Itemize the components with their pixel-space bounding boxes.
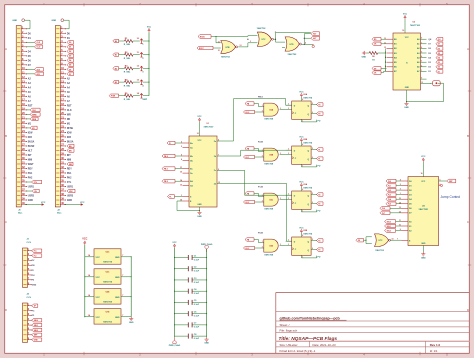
svg-text:Size: USLetter: Size: USLetter (280, 343, 298, 347)
capacitor C8 (175, 334, 207, 340)
capacitor C7 (174, 322, 207, 328)
U4 input labels (380, 179, 402, 215)
J3 labels (32, 249, 42, 286)
svg-text:FL7: FL7 (382, 213, 385, 215)
svg-text:F1: F1 (318, 159, 320, 161)
svg-text:2: 2 (262, 111, 263, 113)
svg-text:7: 7 (218, 155, 219, 157)
svg-text:github.com/TomNisbet/nqsap—pcb: github.com/TomNisbet/nqsap—pcb (280, 316, 341, 320)
svg-text:7: 7 (421, 42, 422, 44)
svg-text:U2B: U2B (303, 139, 307, 141)
right rail to GND (129, 257, 134, 324)
svg-text:B: B (467, 134, 469, 138)
svg-text:74HCT08: 74HCT08 (264, 208, 274, 211)
svg-text:2: 2 (262, 201, 263, 203)
svg-text:VCC: VCC (41, 202, 46, 204)
svg-text:FB-2: FB-2 (164, 181, 168, 183)
svg-text:74HCT74: 74HCT74 (103, 261, 113, 264)
svg-text:5: 5 (296, 40, 297, 42)
svg-text:INT: INT (28, 155, 32, 157)
svg-text:GND: GND (115, 317, 120, 319)
svg-text:D3: D3 (438, 62, 440, 64)
svg-text:USR3: USR3 (67, 196, 74, 198)
flip-flop block F2-B (244, 137, 324, 168)
svg-text:RST: RST (28, 105, 33, 107)
svg-text:VCC: VCC (197, 116, 202, 118)
svg-text:LD-2: LD-2 (245, 202, 249, 204)
svg-text:1: 1 (181, 195, 182, 197)
svg-text:VCC: VCC (96, 297, 101, 299)
J4 labels (32, 304, 42, 342)
svg-text:D5: D5 (438, 53, 440, 55)
svg-text:74HCT74: 74HCT74 (303, 141, 313, 144)
capacitor C2 (174, 266, 207, 272)
U1 input wires (175, 143, 183, 197)
wire U7B out to U7C (238, 41, 257, 47)
U5 right output labels (428, 37, 443, 73)
svg-text:74HCT74: 74HCT74 (303, 96, 313, 99)
svg-text:6: 6 (181, 159, 182, 161)
J1 net labels (28, 33, 35, 202)
svg-text:9: 9 (218, 169, 219, 171)
svg-text:74HCT02: 74HCT02 (221, 56, 231, 59)
svg-text:74HCT08: 74HCT08 (264, 254, 274, 257)
svg-text:12: 12 (218, 50, 220, 52)
svg-text:11: 11 (180, 167, 182, 169)
svg-text:74HCT02: 74HCT02 (257, 27, 267, 30)
svg-text:7: 7 (122, 275, 123, 277)
VCC power rail for resistors (147, 27, 152, 96)
svg-text:R6: R6 (372, 56, 374, 58)
svg-text:U3B: U3B (303, 230, 307, 232)
wire U1 Zb to F2-B D (224, 150, 292, 156)
wire U1 Zc to F1-B D (224, 170, 292, 195)
svg-text:3: 3 (288, 198, 289, 200)
svg-text:74HCT02: 74HCT02 (375, 249, 384, 252)
svg-text:Sheet: /: Sheet: / (280, 323, 290, 327)
svg-text:U3C: U3C (106, 272, 110, 274)
svg-text:SEL1: SEL1 (387, 226, 391, 228)
global label IR-D6 (198, 35, 211, 39)
svg-text:F3: F3 (318, 250, 320, 252)
svg-text:9: 9 (421, 78, 422, 80)
svg-text:F1: F1 (318, 149, 320, 151)
svg-text:D6: D6 (428, 48, 430, 50)
svg-text:GND: GND (28, 200, 33, 202)
svg-text:GND: GND (204, 343, 209, 345)
svg-text:SEL0: SEL0 (34, 320, 39, 322)
svg-text:5: 5 (421, 52, 422, 54)
svg-text:D2: D2 (69, 51, 71, 53)
svg-text:D5: D5 (69, 65, 71, 67)
wire U1 Zd to F0-B D (224, 184, 292, 242)
svg-text:PH1: PH1 (67, 173, 72, 175)
svg-text:U1: U1 (207, 123, 209, 125)
svg-text:U7B: U7B (225, 47, 230, 49)
svg-text:PH1: PH1 (28, 173, 33, 175)
svg-text:IR-D6: IR-D6 (200, 36, 205, 38)
global label HLT (311, 32, 320, 36)
svg-text:74HCT02: 74HCT02 (288, 53, 298, 56)
svg-text:10: 10 (392, 238, 394, 240)
svg-text:M1: M1 (32, 128, 35, 130)
svg-text:R_SEL: R_SEL (124, 85, 131, 87)
svg-text:GND: GND (421, 257, 426, 259)
svg-text:74HCT08: 74HCT08 (264, 163, 274, 166)
svg-text:VCC: VCC (421, 181, 426, 183)
svg-text:U2C: U2C (106, 252, 110, 254)
svg-text:Id: 1/1: Id: 1/1 (430, 349, 438, 353)
svg-text:B2: B2 (115, 68, 117, 70)
svg-text:1: 1 (302, 211, 303, 213)
nor-gate U7C inverter (375, 234, 402, 252)
svg-text:11: 11 (384, 42, 386, 44)
svg-text:NMI: NMI (67, 160, 72, 162)
svg-text:D1: D1 (438, 71, 440, 73)
svg-text:7: 7 (122, 255, 123, 257)
svg-text:U3A: U3A (303, 183, 307, 186)
svg-text:13: 13 (399, 207, 401, 209)
nor-gate U7B (218, 41, 238, 59)
svg-text:D0: D0 (69, 42, 71, 44)
U5 jump loop wire (407, 83, 444, 101)
wire U1 Za to FB-0 D (224, 99, 292, 141)
svg-text:2: 2 (262, 247, 263, 249)
svg-text:PWR_FLAG: PWR_FLAG (201, 243, 213, 246)
connector J1 (12, 19, 45, 215)
svg-text:R_SEL: R_SEL (124, 58, 131, 60)
svg-text:D2: D2 (438, 67, 440, 69)
svg-text:FL3: FL3 (388, 195, 391, 197)
svg-text:16: 16 (197, 133, 199, 135)
svg-text:FL2: FL2 (388, 190, 391, 192)
nor-gate U7D (282, 37, 301, 56)
power unit U3C 74HCT74 (84, 269, 132, 284)
power unit U2C 74HCT74 (85, 249, 132, 264)
svg-text:FL5: FL5 (388, 204, 391, 206)
svg-text:A: A (467, 47, 469, 51)
svg-text:IR-D7: IR-D7 (199, 48, 204, 50)
power VCC U4 (421, 156, 426, 177)
svg-text:R_SEL: R_SEL (124, 99, 131, 101)
U1 input labels (167, 141, 175, 145)
svg-text:IOR: IOR (28, 137, 32, 139)
svg-text:PH2: PH2 (28, 178, 33, 180)
svg-text:C-FL: C-FL (27, 242, 32, 244)
svg-text:PGM: PGM (111, 96, 116, 98)
svg-text:VCC: VCC (403, 14, 408, 16)
J1 global labels (27, 41, 44, 193)
power PWR_FLAG cap right (201, 243, 213, 337)
svg-text:WAIT: WAIT (28, 163, 34, 166)
capacitor C4 (174, 288, 207, 295)
svg-text:74HCT74: 74HCT74 (303, 232, 313, 235)
svg-text:Zc: Zc (214, 170, 216, 172)
resistor R4 (113, 78, 150, 87)
svg-text:BUSA: BUSA (67, 141, 74, 144)
svg-text:F0: F0 (318, 104, 320, 106)
connector J2 (52, 19, 85, 215)
svg-text:GND: GND (52, 20, 57, 22)
svg-text:B1: B1 (115, 55, 117, 57)
svg-text:0.1uF: 0.1uF (194, 315, 200, 317)
svg-text:INT: INT (67, 155, 71, 157)
svg-text:U5: U5 (413, 22, 415, 24)
svg-text:74HCT157: 74HCT157 (204, 126, 215, 129)
svg-text:6: 6 (312, 112, 313, 114)
svg-text:13: 13 (240, 45, 242, 47)
svg-text:5: 5 (312, 193, 313, 195)
wire U7C out to U7D (273, 33, 311, 43)
svg-text:FB-0: FB-0 (164, 156, 168, 158)
svg-text:2: 2 (181, 142, 182, 144)
svg-text:LD-0: LD-0 (245, 112, 249, 114)
svg-text:F2: F2 (318, 204, 320, 206)
svg-text:6: 6 (312, 202, 313, 204)
svg-text:1: 1 (262, 105, 263, 107)
svg-text:R_SEL: R_SEL (124, 44, 131, 46)
flip-flop block F1-B (244, 182, 324, 213)
svg-text:6: 6 (312, 157, 313, 159)
svg-text:GND: GND (115, 277, 120, 279)
svg-text:2: 2 (400, 189, 401, 191)
svg-text:3: 3 (280, 244, 281, 246)
U1 strobe wire (177, 201, 200, 211)
svg-text:WRB: WRB (32, 114, 37, 116)
svg-text:0.1uF: 0.1uF (194, 338, 200, 340)
svg-text:USR1: USR1 (67, 187, 74, 189)
svg-text:A: A (5, 47, 7, 51)
svg-text:3: 3 (181, 146, 182, 148)
svg-text:GND: GND (115, 297, 120, 299)
J2 global labels (67, 41, 75, 193)
resistor R6 to GND (361, 48, 386, 71)
svg-text:RD: RD (67, 119, 71, 121)
svg-text:U7C: U7C (378, 240, 383, 242)
svg-text:D2: D2 (428, 67, 430, 69)
svg-text:GND: GND (32, 284, 37, 286)
svg-text:15: 15 (180, 200, 182, 202)
svg-text:U6B: U6B (269, 155, 273, 157)
svg-text:1: 1 (302, 257, 303, 259)
svg-text:SEL1: SEL1 (34, 325, 39, 327)
svg-text:CLO: CLO (37, 47, 41, 49)
no-connect flag (312, 43, 314, 46)
svg-text:GND: GND (421, 243, 426, 245)
svg-text:3: 3 (288, 153, 289, 155)
svg-text:D6: D6 (69, 69, 71, 71)
svg-text:16: 16 (421, 173, 423, 175)
svg-text:PH2: PH2 (67, 178, 72, 180)
global label IR-D7 (197, 46, 213, 50)
connector J3 (23, 239, 32, 288)
svg-text:GND: GND (405, 87, 410, 89)
svg-text:5: 5 (181, 155, 182, 157)
nor-gate U7C (257, 27, 276, 47)
svg-text:74HCT74: 74HCT74 (303, 186, 313, 189)
svg-text:0.1uF: 0.1uF (194, 282, 200, 284)
svg-text:Rev 1.0: Rev 1.0 (430, 343, 441, 347)
svg-text:74HCT08: 74HCT08 (103, 301, 113, 304)
power PWR_FLAG cap left bottom (169, 337, 181, 347)
svg-text:U6A: U6A (269, 109, 273, 112)
flip-flop block F0-B (244, 228, 324, 259)
svg-text:F2: F2 (318, 194, 320, 196)
svg-text:7: 7 (122, 295, 123, 297)
svg-text:3: 3 (280, 153, 281, 155)
svg-text:74HCT74: 74HCT74 (103, 281, 113, 284)
ground GND U4 (421, 246, 426, 260)
svg-text:R_SEL: R_SEL (124, 72, 131, 74)
svg-text:U6D: U6D (269, 246, 273, 248)
svg-text:RDB: RDB (32, 119, 37, 121)
svg-text:16: 16 (402, 30, 404, 32)
svg-text:3: 3 (288, 244, 289, 246)
svg-text:D5: D5 (428, 53, 430, 55)
svg-text:0.1uF: 0.1uF (194, 293, 200, 295)
svg-text:9: 9 (400, 229, 401, 231)
svg-text:B0: B0 (115, 41, 117, 43)
ground GND cap right bottom (204, 337, 209, 344)
resistor R1 (113, 38, 150, 46)
svg-text:F2-B: F2-B (258, 141, 263, 143)
svg-text:GND: GND (197, 216, 202, 218)
svg-text:VCC: VCC (198, 140, 203, 142)
svg-text:GND: GND (361, 57, 366, 59)
svg-text:FB-0: FB-0 (258, 96, 264, 98)
shift register U5 74HCT165 (384, 33, 426, 90)
svg-text:74HCT165: 74HCT165 (410, 24, 421, 27)
svg-text:10: 10 (180, 172, 182, 174)
svg-text:3: 3 (288, 108, 289, 110)
svg-text:VCC: VCC (82, 238, 87, 241)
svg-text:FL1: FL1 (388, 186, 391, 188)
multiplexer U1 74HCT157 (180, 136, 224, 207)
U7C inverter input label (356, 237, 372, 244)
svg-text:PWR_FLAG: PWR_FLAG (169, 344, 181, 347)
svg-text:1: 1 (302, 166, 303, 168)
svg-text:U2A: U2A (303, 93, 307, 96)
svg-text:BUSR: BUSR (28, 146, 35, 148)
svg-text:FB-1: FB-1 (164, 169, 168, 171)
svg-text:VCC: VCC (96, 317, 101, 319)
svg-text:USR1: USR1 (28, 187, 35, 189)
svg-text:FL4: FL4 (388, 198, 391, 201)
svg-text:LD-3: LD-3 (245, 248, 249, 250)
svg-text:B: B (5, 134, 7, 138)
global label HLT2 (311, 36, 320, 40)
svg-text:HLT: HLT (28, 151, 33, 153)
wire label1 to gate U7C (211, 36, 257, 43)
svg-text:NMI: NMI (28, 160, 33, 162)
svg-text:RST: RST (67, 105, 72, 107)
capacitor C6 (174, 311, 207, 317)
svg-text:/JMP: /JMP (142, 99, 147, 101)
svg-text:VCC: VCC (172, 242, 177, 244)
svg-text:B3: B3 (115, 82, 117, 84)
svg-text:2: 2 (262, 156, 263, 158)
svg-text:US2: US2 (69, 191, 73, 193)
multiplexer U4 74HCT251 (399, 177, 447, 246)
svg-text:GND: GND (404, 107, 409, 109)
svg-text:BUSA: BUSA (28, 141, 35, 144)
text Jump Control (441, 195, 461, 199)
global label JMP out (447, 179, 456, 183)
svg-text:6: 6 (421, 47, 422, 49)
svg-text:VCC: VCC (147, 27, 152, 29)
svg-text:WR: WR (67, 114, 71, 116)
power VCC U1 (197, 116, 214, 136)
svg-text:D7: D7 (428, 44, 430, 46)
svg-text:File: flags.sch: File: flags.sch (280, 328, 298, 332)
svg-text:C-FL: C-FL (27, 297, 32, 299)
svg-text:IOR: IOR (67, 137, 71, 139)
svg-text:Title: NQSAP—PCB Flags: Title: NQSAP—PCB Flags (279, 336, 338, 342)
svg-text:Date: 2021–10–23: Date: 2021–10–23 (313, 343, 336, 347)
svg-text:VCC: VCC (421, 156, 426, 158)
svg-text:SEL2: SEL2 (34, 330, 39, 332)
ground GND U1 (197, 207, 202, 218)
svg-text:11: 11 (399, 220, 401, 222)
power VCC cap rail (172, 242, 177, 337)
svg-text:U7D: U7D (289, 44, 294, 46)
svg-text:0.1uF: 0.1uF (194, 304, 200, 306)
svg-text:RFSH: RFSH (67, 128, 74, 130)
svg-text:4: 4 (305, 42, 306, 45)
svg-text:VCC: VCC (405, 37, 410, 39)
resistor R2 (113, 52, 150, 60)
capacitor C3 (174, 277, 207, 283)
svg-text:U7C: U7C (261, 39, 266, 41)
flip-flop block FB-0 (244, 92, 324, 123)
U4 select labels (385, 220, 402, 233)
connector J4 (23, 293, 32, 343)
capacitor C5 (174, 300, 207, 306)
svg-text:D3: D3 (69, 56, 71, 58)
svg-text:5: 5 (440, 179, 441, 181)
svg-text:7: 7 (122, 315, 123, 317)
svg-text:FL6: FL6 (382, 208, 385, 210)
svg-text:Jump Control: Jump Control (441, 195, 461, 199)
svg-text:3: 3 (250, 41, 251, 43)
svg-text:A14: A14 (37, 68, 40, 71)
svg-text:3: 3 (280, 198, 281, 200)
svg-text:74HCT02: 74HCT02 (103, 321, 113, 324)
svg-text:10: 10 (399, 225, 401, 227)
svg-text:RDY: RDY (67, 169, 72, 171)
svg-text:7: 7 (397, 239, 398, 241)
svg-text:D1: D1 (69, 47, 71, 49)
svg-text:RDY: RDY (28, 169, 33, 171)
svg-text:LD-1: LD-1 (245, 157, 249, 159)
svg-text:D7: D7 (69, 74, 71, 76)
svg-text:GND: GND (67, 200, 72, 202)
J2 net labels (67, 33, 74, 202)
wire U7D out to labels (301, 34, 313, 45)
power unit U6E 74HCT08 (84, 289, 132, 304)
svg-text:XTL: XTL (67, 182, 72, 184)
svg-text:74HCT08: 74HCT08 (264, 118, 274, 121)
svg-text:5: 5 (312, 148, 313, 150)
svg-text:D7: D7 (438, 44, 440, 46)
svg-text:3: 3 (280, 108, 281, 110)
jump flag symbol (433, 81, 441, 86)
svg-text:VCC: VCC (80, 202, 85, 204)
svg-text:CLK: CLK (67, 110, 72, 112)
svg-text:SEL2: SEL2 (387, 230, 391, 232)
svg-text:GND: GND (115, 257, 120, 259)
svg-text:3: 3 (421, 61, 422, 63)
